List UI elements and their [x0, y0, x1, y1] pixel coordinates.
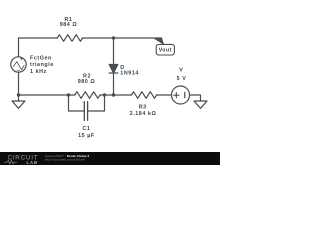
- wire bottom rail left (ground node to R2): [19, 94, 69, 96]
- svg-text:15 µF: 15 µF: [78, 133, 95, 139]
- wire R2 right lead: [100, 94, 114, 96]
- svg-text:triangle: triangle: [30, 62, 54, 68]
- wire diode branch upper: [113, 38, 115, 65]
- FctGen source circle: [11, 57, 26, 72]
- footer text: [45, 154, 90, 161]
- svg-text:http://circuitlab.com/c6t5yr4: http://circuitlab.com/c6t5yr4: [45, 157, 85, 161]
- resistor R1: [57, 35, 82, 42]
- svg-text:5 V: 5 V: [177, 76, 187, 82]
- net flag Vout: [154, 37, 174, 55]
- wire R3 left lead: [114, 94, 132, 96]
- svg-text:C1: C1: [82, 126, 90, 132]
- node junction diode bottom: [112, 93, 115, 96]
- footer logo CIRCUIT LAB: [4, 155, 38, 165]
- ground left: [12, 101, 25, 108]
- svg-text:V: V: [179, 68, 183, 74]
- wire from FctGen top up to top rail: [18, 38, 20, 57]
- wire C1 right branch: [88, 95, 105, 111]
- svg-text:1N914: 1N914: [120, 71, 139, 77]
- resistor R3: [131, 92, 156, 99]
- wire top rail left (to R1): [19, 37, 58, 39]
- diode D (1N914): [109, 65, 118, 74]
- svg-text:FctGen: FctGen: [30, 56, 52, 62]
- svg-text:Vout: Vout: [159, 48, 172, 54]
- wire diode branch lower: [113, 73, 115, 95]
- node junction top (diode tap): [112, 36, 115, 39]
- svg-text:1 kHz: 1 kHz: [30, 69, 47, 75]
- svg-text:980 Ω: 980 Ω: [78, 79, 96, 85]
- wire source V to right ground: [190, 95, 201, 101]
- node junction bottom left (FctGen/ground): [17, 93, 20, 96]
- ground right: [194, 101, 207, 108]
- wire Vout flag leader: [154, 38, 164, 44]
- wire FctGen bottom to ground node: [18, 72, 20, 101]
- resistor R2: [75, 92, 100, 99]
- node junction R2/C1 right: [103, 93, 106, 96]
- wire R3 to source V: [157, 94, 172, 96]
- svg-text:R3: R3: [139, 104, 147, 110]
- wire C1 left branch: [69, 95, 85, 111]
- node junction R2/C1 left: [67, 93, 70, 96]
- wire top rail right (R1 to Vout flag): [83, 37, 154, 39]
- svg-text:984 Ω: 984 Ω: [60, 22, 78, 28]
- svg-text:LAB: LAB: [27, 160, 39, 165]
- wire R2 left lead: [69, 94, 75, 96]
- capacitor C1: [84, 102, 87, 121]
- voltage source V: [172, 86, 190, 104]
- svg-text:2.184 kΩ: 2.184 kΩ: [130, 111, 157, 117]
- footer bar: [0, 152, 220, 165]
